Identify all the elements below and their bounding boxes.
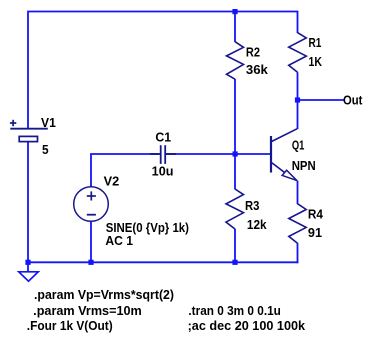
svg-text:.Four 1k V(Out): .Four 1k V(Out) <box>27 319 113 333</box>
label V2 <box>104 174 120 188</box>
node: ground rail junction at R3 <box>232 260 237 265</box>
svg-text:Out: Out <box>343 94 363 108</box>
wire: C1 right plate to Q1 base <box>166 153 270 155</box>
wire: Out stub <box>298 99 345 101</box>
wire: R2 bottom to R3 top through base junction <box>234 79 236 189</box>
svg-text:.tran 0 3m 0 0.1u: .tran 0 3m 0 0.1u <box>188 304 281 318</box>
node: ground rail junction at V2 <box>88 260 93 265</box>
value NPN <box>292 159 316 173</box>
wire: R4 bottom to ground rail corner <box>297 243 299 263</box>
node Out junction <box>295 97 300 102</box>
svg-text:5: 5 <box>42 143 49 157</box>
wire: V2 bottom to ground rail <box>90 221 92 262</box>
svg-text:R1: R1 <box>309 36 322 50</box>
directive .Four <box>27 319 113 333</box>
svg-text:.param Vp=Vrms*sqrt(2): .param Vp=Vrms*sqrt(2) <box>34 288 174 302</box>
label Q1 <box>292 139 305 153</box>
svg-text:Q1: Q1 <box>292 139 305 153</box>
wire: emitter down to R4 <box>297 181 299 205</box>
value SINE(0 {Vp} 1k) <box>106 221 189 235</box>
svg-text:12k: 12k <box>247 218 267 232</box>
node: top junction at R2 column <box>232 9 237 14</box>
label R2 <box>246 46 260 60</box>
wire: V1 bottom to ground rail <box>27 142 29 263</box>
svg-text:10u: 10u <box>152 165 174 179</box>
label R4 <box>308 208 323 222</box>
svg-text:;ac dec 20 100 100k: ;ac dec 20 100 100k <box>188 319 306 333</box>
svg-text:V1: V1 <box>41 116 56 130</box>
resistor R3 <box>226 189 244 229</box>
node Out label <box>343 94 363 108</box>
wire: R1 bottom to Out junction, down to collector <box>297 72 299 129</box>
wire: R2 column top rail to zigzag <box>234 12 236 43</box>
value 36k <box>246 63 268 77</box>
svg-text:V2: V2 <box>104 174 120 188</box>
node: ground rail junction at V1 <box>25 260 30 265</box>
directive .tran <box>188 304 281 318</box>
ground <box>19 262 38 281</box>
svg-text:R4: R4 <box>308 208 323 222</box>
wire: V2 top to C1 left plate <box>91 154 160 187</box>
wire: top rail from V1 to R1 column <box>28 12 298 129</box>
value AC 1 <box>105 234 133 248</box>
svg-text:1K: 1K <box>309 55 323 69</box>
directive ;ac <box>188 319 306 333</box>
svg-text:.param Vrms=10m: .param Vrms=10m <box>33 304 142 318</box>
capacitor C1 <box>150 145 176 164</box>
svg-text:91: 91 <box>308 226 322 240</box>
value 10u <box>152 165 174 179</box>
label R1 <box>309 36 322 50</box>
svg-text:36k: 36k <box>246 63 268 77</box>
resistor R1 <box>289 33 307 73</box>
value 5 <box>42 143 49 157</box>
directive .param Vrms <box>33 304 142 318</box>
battery V1 <box>10 120 48 142</box>
wire: bottom ground rail <box>27 261 298 263</box>
svg-text:AC 1: AC 1 <box>105 234 133 248</box>
resistor R2 <box>227 42 244 79</box>
svg-text:R3: R3 <box>245 199 259 213</box>
node: base junction at R2/R3 divider <box>233 151 238 156</box>
transistor Q1 <box>271 129 297 181</box>
resistor R4 <box>289 204 306 244</box>
svg-text:C1: C1 <box>155 130 171 144</box>
label V1 <box>41 116 56 130</box>
value 1K <box>309 55 323 69</box>
svg-text:NPN: NPN <box>292 159 316 173</box>
svg-text:SINE(0 {Vp} 1k): SINE(0 {Vp} 1k) <box>106 221 189 235</box>
label R3 <box>245 199 259 213</box>
label C1 <box>155 130 171 144</box>
svg-text:R2: R2 <box>246 46 260 60</box>
value 12k <box>247 218 267 232</box>
value 91 <box>308 226 322 240</box>
wire: R3 bottom to ground rail <box>234 229 236 262</box>
directive .param Vp <box>34 288 174 302</box>
voltage source V2 <box>74 187 109 222</box>
